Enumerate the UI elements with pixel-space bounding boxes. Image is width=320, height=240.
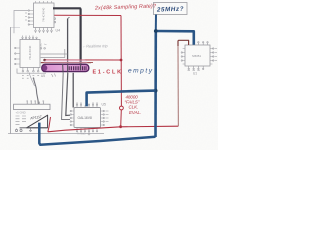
regulator AP1117 triangle	[27, 115, 48, 128]
wire pencil verticals below band	[62, 73, 70, 120]
wire red bottom long	[48, 126, 179, 132]
wire red regulator leg	[48, 117, 51, 132]
wire dark line below red	[41, 62, 91, 64]
svg-text:U1: U1	[193, 72, 197, 76]
IC U6 GAL16V8 body	[74, 108, 101, 128]
pencil tick marks below band	[52, 74, 56, 78]
IC U4 top pins	[36, 1, 52, 3]
wire from U4 left pin down	[14, 11, 28, 34]
wire maroon short from U5	[41, 62, 93, 64]
node blue junction top	[154, 29, 158, 33]
ground symbol regulator	[29, 129, 32, 132]
IC U1 body right	[185, 45, 210, 66]
wire red continues down	[120, 110, 123, 127]
IC U4 left pins	[25, 10, 34, 25]
test point circles	[15, 129, 22, 132]
IC U5 body	[20, 40, 40, 68]
node red start dot	[43, 59, 46, 62]
IC U5 top pins	[22, 36, 37, 40]
wire verticals crossing band	[63, 64, 81, 73]
IC U5 bottom pins	[22, 68, 45, 79]
IC U5 left pins	[15, 47, 20, 64]
highlight band halo	[44, 60, 88, 71]
IC U6 right pins	[101, 110, 109, 125]
node red junction	[120, 59, 123, 62]
svg-text:74HC4040: 74HC4040	[42, 7, 46, 22]
highlight band tick text	[68, 66, 86, 70]
svg-text:U5: U5	[102, 103, 106, 107]
regulator base line	[20, 127, 48, 129]
wire curvy from U5 bottom pin	[33, 78, 38, 105]
red note 48000 fails	[125, 95, 142, 115]
ground below U6	[88, 132, 91, 135]
regulator input dashes	[16, 116, 27, 124]
IC U1 top pins	[189, 42, 209, 46]
IC U6 bottom pins	[76, 128, 97, 132]
node red junction bottom	[119, 125, 122, 128]
wire red horizontal to U5	[44, 59, 121, 61]
connector J1 strip	[14, 104, 50, 109]
wire frame-left pencil border	[9, 27, 11, 134]
wire red vertical	[120, 16, 122, 107]
svg-text:CLK.: CLK.	[129, 105, 139, 110]
IC U4 body	[34, 3, 55, 28]
IC U5 right pin circles	[40, 48, 45, 50]
wire blue from crystal	[155, 15, 157, 30]
wire blue bottom	[39, 123, 155, 145]
IC U1 right pins	[210, 48, 217, 64]
svg-text:74HC4040: 74HC4040	[28, 45, 32, 60]
svg-text:Si5351: Si5351	[192, 54, 201, 58]
svg-text:←Realtime trip: ←Realtime trip	[82, 44, 107, 48]
crystal X1 box with 25MHz	[154, 3, 188, 15]
svg-text:U4: U4	[56, 29, 61, 33]
svg-text:25MHz?: 25MHz?	[156, 6, 184, 14]
svg-text:+5 GND: +5 GND	[16, 111, 26, 115]
wire thick dark from U4 pin right then down	[53, 8, 81, 70]
connector J1 pins above	[26, 101, 44, 104]
IC U4 right pin circles	[54, 18, 56, 23]
svg-text:GAL16V8: GAL16V8	[78, 116, 92, 120]
wire blue main vertical	[154, 30, 157, 137]
wire U5 right pin horizontal 2	[41, 49, 65, 58]
node blue junction mid	[154, 89, 158, 93]
pencil scribble near pins	[41, 44, 47, 47]
IC U6 top pins	[76, 103, 98, 108]
IC U6 left pins	[70, 110, 74, 125]
wire U5 right pin horizontal 1	[41, 53, 68, 55]
wire red from U4 to right	[54, 14, 121, 16]
svg-text:U5: U5	[41, 74, 45, 78]
IC U1 left pins	[181, 49, 185, 65]
wire maroon right vertical	[177, 46, 179, 126]
wire maroon top loop	[178, 40, 189, 46]
wire blue horizontal to U1	[155, 31, 194, 45]
wire dark vertical mid	[67, 19, 69, 66]
svg-text:EVAL.: EVAL.	[129, 110, 141, 115]
highlight band purple	[42, 64, 89, 71]
wire rail below U5	[17, 69, 46, 74]
node red open circle	[120, 106, 124, 110]
svg-text:7x45±3: 7x45±3	[77, 132, 86, 136]
IC U4 bottom pins	[35, 28, 53, 34]
IC U1 bottom pins	[188, 66, 204, 71]
wire blue branch to U6	[87, 91, 156, 107]
highlight band left cap	[42, 65, 47, 71]
